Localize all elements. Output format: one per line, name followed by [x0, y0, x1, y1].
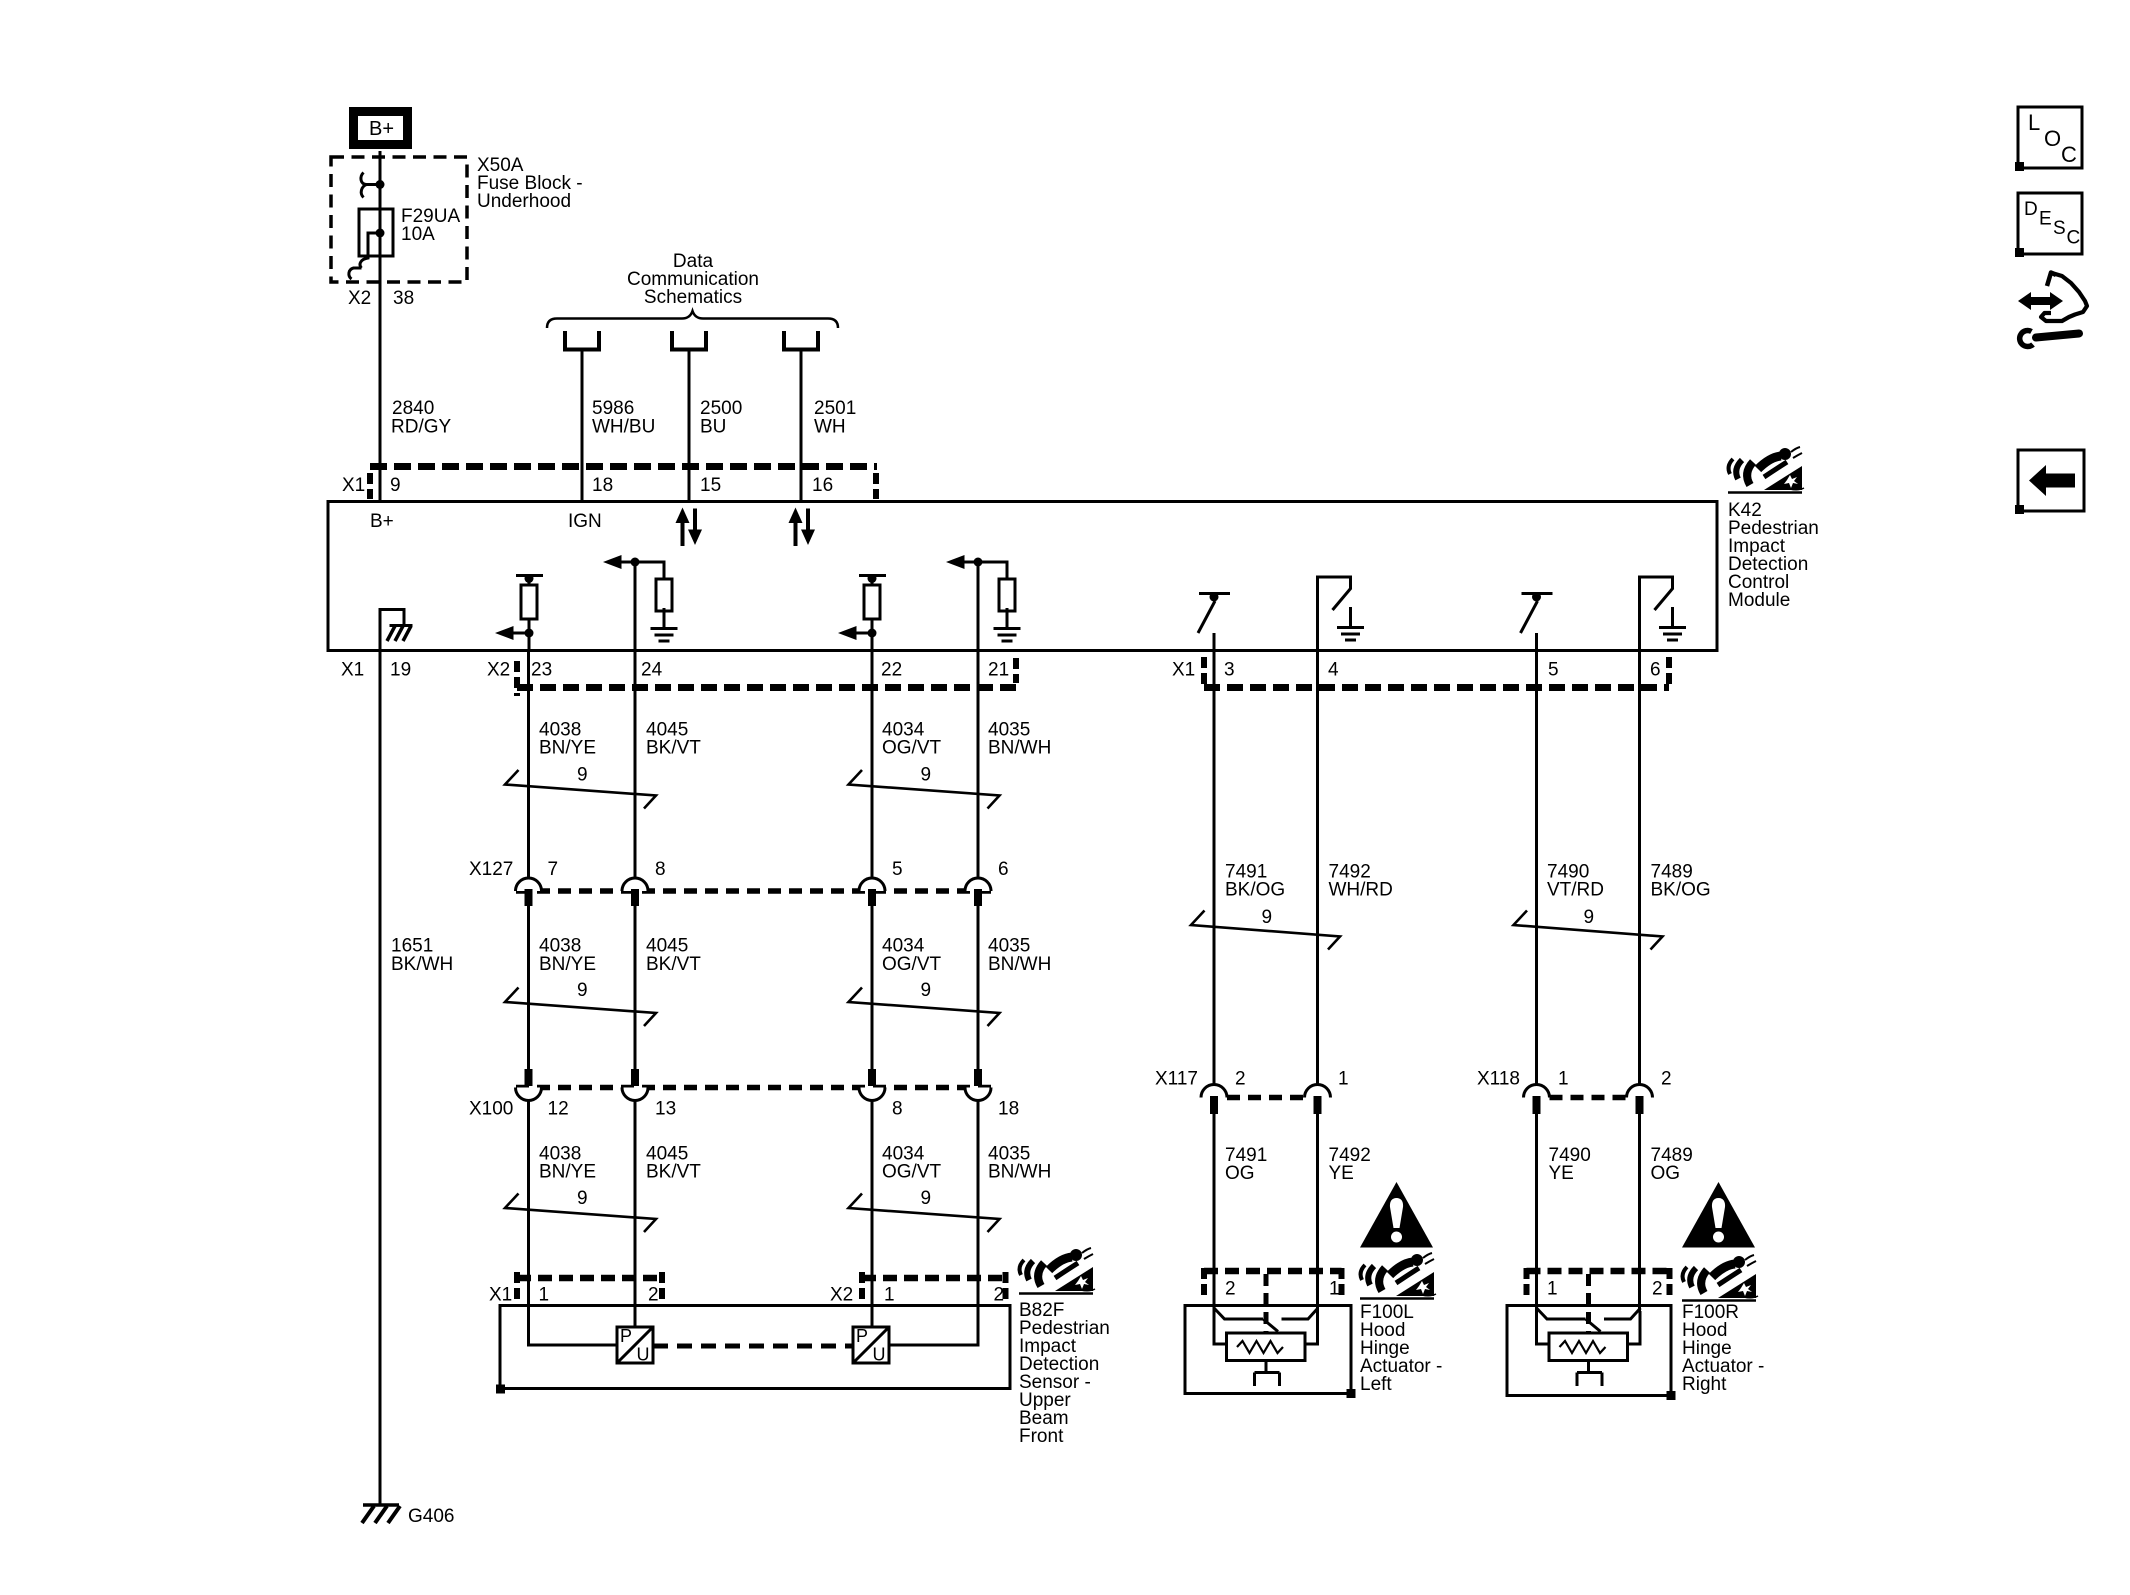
fuse F29UA — [349, 173, 393, 280]
svg-text:9: 9 — [577, 1188, 588, 1209]
svg-text:X1: X1 — [1172, 660, 1195, 681]
svg-text:G406: G406 — [408, 1506, 454, 1527]
svg-text:RD/GY: RD/GY — [391, 417, 452, 438]
label 7492 WH/RD — [1329, 862, 1393, 901]
internal switch pin 5 — [1521, 593, 1553, 652]
svg-text:16: 16 — [812, 475, 833, 496]
twisted pair symbol right actuator pair — [1514, 911, 1663, 950]
internal switch pin 3 — [1198, 593, 1230, 652]
svg-text:18: 18 — [998, 1099, 1019, 1120]
svg-text:9: 9 — [921, 1188, 932, 1209]
ground G406 — [362, 1505, 454, 1527]
label 7491 BK/OG — [1225, 862, 1285, 901]
svg-text:BK/WH: BK/WH — [391, 954, 453, 975]
svg-text:U: U — [637, 1345, 650, 1365]
connector X100 terminal pin 8 — [859, 1069, 885, 1101]
internal ground pin X1-19 — [380, 608, 413, 651]
svg-text:BN/WH: BN/WH — [988, 954, 1051, 975]
power symbol B+ — [354, 112, 408, 145]
actuator F100L box — [1185, 1306, 1351, 1394]
sidebar button DESC — [2015, 193, 2082, 257]
connector X118 row — [1477, 1069, 1672, 1098]
svg-text:9: 9 — [577, 980, 588, 1001]
pressure sensor element P/U right — [853, 1326, 889, 1365]
svg-text:3: 3 — [1224, 660, 1235, 681]
twisted pair symbol left actuator pair — [1191, 911, 1340, 950]
svg-text:2: 2 — [1661, 1069, 1672, 1090]
svg-text:WH/RD: WH/RD — [1329, 880, 1393, 901]
terminal symbol wire 2501 — [784, 331, 818, 350]
svg-text:X100: X100 — [469, 1099, 513, 1120]
svg-text:YE: YE — [1549, 1163, 1574, 1184]
twisted pair symbol row1 left (4038/4045) — [505, 770, 656, 809]
svg-text:BN/YE: BN/YE — [539, 954, 596, 975]
label K42 Pedestrian Impact Detection Control Module — [1728, 500, 1819, 611]
internal pull-up resistor pin 23 — [495, 574, 543, 651]
label 7489 BK/OG — [1651, 862, 1711, 901]
svg-text:BN/WH: BN/WH — [988, 738, 1051, 759]
label 4034 OG/VT (row C) — [882, 936, 942, 976]
label 4034 OG/VT (row B) — [882, 720, 942, 759]
wire 4038 BN/YE segment A (pin 23 to X127-7) — [527, 652, 530, 878]
svg-text:OG/VT: OG/VT — [882, 738, 942, 759]
connector row F100L (pins 2 1) — [1204, 1268, 1342, 1334]
svg-text:9: 9 — [1262, 907, 1273, 928]
svg-text:B+: B+ — [370, 511, 394, 532]
connector X117 row — [1155, 1069, 1349, 1098]
sidebar button back arrow — [2015, 450, 2084, 514]
svg-text:10A: 10A — [401, 224, 435, 245]
svg-text:22: 22 — [881, 660, 902, 681]
connector X127 terminal pin 7 — [516, 878, 542, 906]
svg-text:BN/WH: BN/WH — [988, 1162, 1051, 1183]
svg-text:2: 2 — [648, 1285, 659, 1306]
brace for Data Communication Schematics — [547, 311, 838, 328]
connector X2 pin 38 labels — [348, 288, 414, 309]
svg-text:1: 1 — [1329, 1279, 1340, 1300]
wire 1651 BK/WH (pin 19 to G406) — [379, 652, 382, 1504]
svg-text:YE: YE — [1329, 1163, 1354, 1184]
wire 4034 OG/VT segment A (pin 22 to X127-5) — [871, 652, 874, 878]
svg-text:X1: X1 — [341, 660, 364, 681]
svg-text:X2: X2 — [487, 660, 510, 681]
svg-text:U: U — [873, 1345, 886, 1365]
internal switch to ground pin 4 — [1318, 577, 1365, 651]
svg-text:6: 6 — [998, 859, 1009, 880]
connector X100 row — [469, 1088, 1019, 1120]
svg-text:X1: X1 — [489, 1285, 512, 1306]
svg-text:S: S — [2053, 218, 2066, 239]
svg-text:X117: X117 — [1155, 1069, 1198, 1090]
svg-text:E: E — [2039, 209, 2052, 230]
terminal symbol wire 5986 — [565, 331, 599, 350]
label 7490 YE — [1549, 1145, 1591, 1184]
connector row B82F X1 (pins 1 2) — [489, 1272, 662, 1306]
pedestrian impact icon (F100R) — [1682, 1255, 1758, 1301]
bidirectional arrows pin 16 — [789, 508, 816, 547]
wire 4034 OG/VT segment C (X100 to B82F X2-1) — [871, 1101, 874, 1328]
svg-text:Front: Front — [1019, 1426, 1064, 1447]
svg-text:2: 2 — [1225, 1279, 1236, 1300]
svg-text:Underhood: Underhood — [477, 191, 571, 212]
label 4035 BN/WH (row B) — [988, 720, 1051, 759]
label X50A Fuse Block - Underhood — [477, 155, 583, 212]
fuse block X50A dashed outline — [331, 157, 467, 282]
wire 7492 YE segment B — [1316, 1114, 1319, 1311]
svg-text:X118: X118 — [1477, 1069, 1520, 1090]
sensor B82F box — [500, 1306, 1010, 1389]
wire 7492 WH/RD segment A (pin 4 to X117-1) — [1316, 652, 1319, 1085]
module K42 box — [328, 502, 1717, 651]
connector X117 terminal pin 2 — [1201, 1085, 1227, 1115]
pedestrian impact icon (B82F) — [1019, 1248, 1095, 1294]
label 7491 OG — [1225, 1145, 1267, 1184]
svg-text:WH: WH — [814, 417, 846, 438]
svg-text:BK/OG: BK/OG — [1225, 880, 1285, 901]
twisted pair symbol row2 left — [505, 988, 656, 1027]
label 7490 VT/RD — [1547, 862, 1604, 901]
label 4045 BK/VT (row C) — [646, 936, 701, 976]
wire 4045 BK/VT segment C (X100 to B82F X1-2) — [634, 1101, 637, 1328]
wire 7489 OG segment B — [1638, 1114, 1641, 1311]
svg-text:OG: OG — [1225, 1163, 1255, 1184]
svg-text:WH/BU: WH/BU — [592, 417, 655, 438]
wire 4045 BK/VT segment A (pin 24 to X127-8) — [634, 652, 637, 878]
pedestrian impact icon (K42) — [1728, 447, 1804, 493]
svg-text:8: 8 — [655, 859, 666, 880]
label F100R Hood Hinge Actuator - Right — [1682, 1302, 1764, 1395]
connector X127 terminal pin 5 — [859, 878, 885, 906]
svg-text:O: O — [2044, 126, 2061, 151]
label 4034 OG/VT (row D) — [882, 1144, 942, 1183]
svg-text:VT/RD: VT/RD — [1547, 880, 1604, 901]
terminal symbol wire 2500 — [672, 331, 706, 350]
label 4035 BN/WH (row D) — [988, 1144, 1051, 1183]
actuator F100R box — [1507, 1306, 1671, 1396]
twisted pair symbol row1 right (4034/4035) — [849, 770, 1000, 809]
wire 4035 BN/WH segment A (pin 21 to X127-6) — [977, 652, 980, 878]
wire 4045 BK/VT segment B — [634, 906, 637, 1069]
svg-text:2: 2 — [994, 1285, 1005, 1306]
svg-text:7: 7 — [548, 859, 559, 880]
svg-text:BK/VT: BK/VT — [646, 954, 701, 975]
wire 4035 BN/WH segment B — [977, 906, 980, 1069]
label 4035 BN/WH (row C) — [988, 936, 1051, 976]
svg-text:Right: Right — [1682, 1374, 1727, 1395]
svg-text:OG/VT: OG/VT — [882, 954, 942, 975]
svg-text:1: 1 — [1338, 1069, 1349, 1090]
internal pull-up resistor pin 22 — [838, 574, 886, 651]
pressure sensor element P/U left — [617, 1326, 653, 1365]
wire 7490 VT/RD segment A (pin 5 to X118-1) — [1535, 652, 1538, 1085]
connector X127 row — [469, 859, 1009, 891]
twisted pair symbol row3 right — [849, 1194, 1000, 1233]
squib igniter F100L — [1214, 1308, 1318, 1386]
svg-text:2: 2 — [1652, 1279, 1663, 1300]
svg-text:P: P — [856, 1326, 868, 1346]
wire 4038 BN/YE segment C (X100 to B82F X1-1) — [529, 1101, 618, 1345]
wire 7491 BK/OG segment A (pin 3 to X117-2) — [1213, 652, 1216, 1085]
svg-text:BU: BU — [700, 417, 726, 438]
svg-text:1: 1 — [884, 1285, 895, 1306]
svg-text:X2: X2 — [830, 1285, 853, 1306]
internal switch to ground pin 6 — [1640, 577, 1687, 651]
svg-text:19: 19 — [390, 660, 411, 681]
label 4045 BK/VT (row D) — [646, 1144, 701, 1183]
svg-text:C: C — [2061, 142, 2077, 167]
wire 4038 BN/YE segment B (X127 to X100) — [527, 906, 530, 1069]
wire 7489 BK/OG segment A (pin 6 to X118-2) — [1638, 652, 1641, 1085]
label F100L Hood Hinge Actuator - Left — [1360, 1302, 1442, 1395]
svg-text:1: 1 — [539, 1285, 550, 1306]
bidirectional arrows pin 15 — [676, 508, 703, 547]
label 4038 BN/YE (row B) — [539, 720, 596, 759]
svg-text:BN/YE: BN/YE — [539, 738, 596, 759]
svg-text:8: 8 — [892, 1099, 903, 1120]
svg-text:Module: Module — [1728, 590, 1790, 611]
wire 4034 OG/VT segment B — [871, 906, 874, 1069]
wire 2501 WH — [800, 349, 803, 501]
twisted pair symbol row2 right — [849, 988, 1000, 1027]
connector X100 terminal pin 13 — [622, 1069, 648, 1101]
svg-text:4: 4 — [1328, 660, 1339, 681]
connector row B82F X2 (pins 1 2) — [830, 1272, 1006, 1306]
svg-text:1: 1 — [1558, 1069, 1569, 1090]
dashed link between sensor elements — [653, 1344, 853, 1349]
label B82F Pedestrian Impact Detection Sensor - Upper Beam Front — [1019, 1300, 1110, 1447]
svg-text:1: 1 — [1547, 1279, 1558, 1300]
wire 2500 BU — [688, 349, 691, 501]
svg-text:B+: B+ — [369, 118, 394, 140]
svg-text:Schematics: Schematics — [644, 287, 742, 308]
svg-text:9: 9 — [921, 765, 932, 786]
svg-text:24: 24 — [641, 660, 663, 681]
connector X117 terminal pin 1 — [1305, 1085, 1331, 1115]
label 7492 YE — [1329, 1145, 1371, 1184]
connector X100 terminal pin 12 — [516, 1069, 542, 1101]
label wire 5986 WH/BU — [592, 398, 655, 438]
svg-text:BK/OG: BK/OG — [1651, 880, 1711, 901]
svg-text:9: 9 — [921, 980, 932, 1001]
warning triangle icon (F100R) — [1682, 1182, 1755, 1248]
svg-text:BN/YE: BN/YE — [539, 1162, 596, 1183]
svg-text:38: 38 — [393, 288, 414, 309]
wire 5986 WH/BU — [581, 349, 584, 501]
sidebar button LOC — [2015, 107, 2082, 171]
svg-text:OG: OG — [1651, 1163, 1681, 1184]
wire 7491 OG segment B (X117 to F100L) — [1213, 1114, 1216, 1311]
svg-text:L: L — [2028, 110, 2040, 135]
label 4038 BN/YE (row C) — [539, 936, 596, 976]
connector X1 row below module (pins 3 4 5 6) — [1172, 657, 1669, 688]
internal resistor to ground pin 21 — [946, 555, 1021, 651]
internal resistor to ground pin 24 — [603, 555, 678, 651]
svg-text:18: 18 — [592, 475, 613, 496]
squib igniter F100R — [1537, 1308, 1641, 1386]
svg-text:OG/VT: OG/VT — [882, 1162, 942, 1183]
svg-text:12: 12 — [548, 1099, 569, 1120]
label wire 2500 BU — [700, 398, 742, 438]
svg-text:BK/VT: BK/VT — [646, 738, 701, 759]
svg-text:23: 23 — [531, 660, 552, 681]
label 4038 BN/YE (row D) — [539, 1144, 596, 1183]
connector X127 terminal pin 8 — [622, 878, 648, 906]
connector X2 row below module (pins 23 24 22 21) — [487, 658, 1016, 696]
svg-text:D: D — [2024, 199, 2038, 220]
connector X100 terminal pin 18 — [965, 1069, 991, 1101]
connector X127 terminal pin 6 — [965, 878, 991, 906]
svg-text:9: 9 — [390, 475, 401, 496]
svg-text:6: 6 — [1650, 660, 1661, 681]
connector X118 terminal pin 1 — [1524, 1085, 1550, 1115]
svg-text:21: 21 — [988, 660, 1009, 681]
connector X1 row at module top — [342, 467, 877, 500]
svg-text:5: 5 — [1548, 660, 1559, 681]
connector row F100R (pins 1 2) — [1527, 1268, 1670, 1334]
svg-text:C: C — [2067, 228, 2081, 249]
twisted pair symbol row3 left — [505, 1194, 656, 1233]
svg-text:9: 9 — [1584, 907, 1595, 928]
svg-text:13: 13 — [655, 1099, 676, 1120]
pedestrian impact icon (F100L) — [1360, 1253, 1436, 1299]
wire B+ feed from B+ to module pin X1-9 — [379, 151, 382, 501]
label 4045 BK/VT (row B) — [646, 720, 701, 759]
sidebar icon vehicle data / wrench — [2018, 273, 2087, 347]
svg-text:X2: X2 — [348, 288, 371, 309]
label 7489 OG — [1651, 1145, 1693, 1184]
svg-text:P: P — [620, 1326, 632, 1346]
label Data Communication Schematics — [627, 251, 759, 308]
svg-text:5: 5 — [892, 859, 903, 880]
svg-text:IGN: IGN — [568, 511, 602, 532]
svg-text:2: 2 — [1235, 1069, 1246, 1090]
label wire 1651 BK/WH — [391, 936, 453, 976]
svg-text:X127: X127 — [469, 859, 513, 880]
wire 4035 BN/WH segment C (X100 to B82F X2-2) — [889, 1101, 978, 1345]
warning triangle icon (F100L) — [1360, 1182, 1433, 1248]
svg-text:15: 15 — [700, 475, 721, 496]
svg-text:9: 9 — [577, 765, 588, 786]
module bottom pin labels X1 19 — [341, 660, 411, 681]
svg-text:Left: Left — [1360, 1374, 1392, 1395]
label wire 2840 RD/GY — [391, 398, 452, 438]
wire 7490 YE segment B (X118 to F100R) — [1535, 1114, 1538, 1311]
label F29UA 10A — [401, 206, 460, 245]
svg-text:BK/VT: BK/VT — [646, 1162, 701, 1183]
svg-text:X1: X1 — [342, 475, 365, 496]
connector X118 terminal pin 2 — [1627, 1085, 1653, 1115]
label wire 2501 WH — [814, 398, 856, 438]
